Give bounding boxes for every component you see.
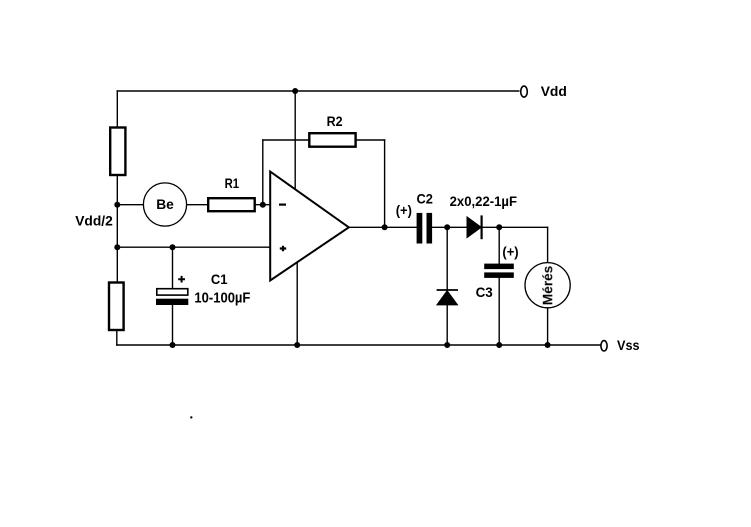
resistor divider lower <box>109 283 124 331</box>
junction bottom rail meter <box>545 342 551 348</box>
meter Mérés circle <box>525 263 570 308</box>
junction C1 top <box>170 244 176 250</box>
svg-text:(+): (+) <box>396 202 412 218</box>
capacitor C2 plate left <box>417 213 423 244</box>
wire plus input line <box>117 246 270 248</box>
resistor R2 <box>309 133 355 147</box>
wire left rail middle <box>116 175 118 283</box>
wire R1 to op-amp minus input <box>256 204 271 206</box>
wire C2 to diode <box>432 226 467 228</box>
svg-text:Be: Be <box>156 196 174 212</box>
junction node Vdd/2 <box>114 202 120 208</box>
wire diode to corner <box>482 226 548 228</box>
junction bottom rail C1 <box>170 342 176 348</box>
terminal Vdd <box>521 86 528 97</box>
capacitor C1 plate top <box>157 289 188 295</box>
wire meter bottom <box>547 308 549 345</box>
wire C1 stem lower <box>172 305 174 345</box>
junction top rail / op-amp power <box>292 88 298 94</box>
svg-text:C3: C3 <box>476 284 493 300</box>
wire C3 stem lower <box>498 278 500 345</box>
resistor R1 <box>208 198 255 211</box>
diode D1 series triangle <box>467 217 481 238</box>
svg-text:(+): (+) <box>502 243 518 259</box>
svg-text:Vdd/2: Vdd/2 <box>75 213 113 229</box>
wire C3 stem upper <box>498 227 500 263</box>
diode D2 shunt triangle <box>437 291 458 305</box>
wire C1 stem upper <box>172 247 174 289</box>
svg-text:R1: R1 <box>225 175 240 191</box>
svg-text:10-100µF: 10-100µF <box>194 290 250 307</box>
wire left rail upper <box>116 91 118 128</box>
wire R2 output vertical <box>384 140 386 227</box>
capacitor C1 plate bottom <box>156 299 188 305</box>
stray dot <box>190 416 192 418</box>
junction diode / C3 <box>496 224 502 230</box>
op-amp U1 <box>270 172 349 281</box>
wire shunt diode stem lower <box>446 305 448 345</box>
wire op-amp power top <box>294 91 296 189</box>
wire node Vdd/2 to Be <box>117 204 144 206</box>
junction feedback / output <box>382 224 388 230</box>
microphone Be circle <box>143 183 186 226</box>
diode D1 cathode bar <box>481 215 483 239</box>
svg-text:C2: C2 <box>417 190 434 206</box>
svg-text:Mérés: Mérés <box>539 265 555 305</box>
capacitor C2 plate right <box>427 213 433 244</box>
svg-text:Vdd: Vdd <box>541 83 567 99</box>
diode D2 shunt cathode bar <box>437 289 458 291</box>
junction bottom rail shunt diode <box>444 342 450 348</box>
wire shunt diode stem upper <box>446 227 448 290</box>
wire feedback vertical <box>262 140 264 205</box>
op-amp plus sign <box>280 246 286 252</box>
wire corner down to meter <box>547 227 549 262</box>
svg-text:R2: R2 <box>327 113 343 129</box>
resistor divider upper <box>110 128 125 176</box>
wire top rail Vdd <box>117 90 519 92</box>
junction bottom rail op-amp power <box>294 342 300 348</box>
junction op-amp minus input <box>260 202 266 208</box>
junction left rail / plus line <box>114 244 120 250</box>
wire R2 right <box>356 139 384 141</box>
capacitor C3 plate bottom <box>484 272 514 278</box>
wire op-amp output <box>350 226 417 228</box>
C1 polarity plus <box>178 276 185 283</box>
svg-text:2x0,22-1µF: 2x0,22-1µF <box>450 193 518 209</box>
junction bottom rail C3 <box>496 342 502 348</box>
wire feedback horizontal to R2 <box>263 139 309 141</box>
op-amp minus sign <box>279 204 286 206</box>
svg-text:C1: C1 <box>211 271 228 287</box>
wire bottom rail Vss <box>117 344 601 346</box>
junction C2 / shunt diode <box>444 224 450 230</box>
wire left rail lower <box>116 330 118 346</box>
terminal Vss <box>601 341 607 351</box>
wire Be to R1 <box>186 204 208 206</box>
capacitor C3 plate top <box>484 264 514 270</box>
wire op-amp power bottom <box>296 263 298 345</box>
svg-text:Vss: Vss <box>617 337 640 353</box>
